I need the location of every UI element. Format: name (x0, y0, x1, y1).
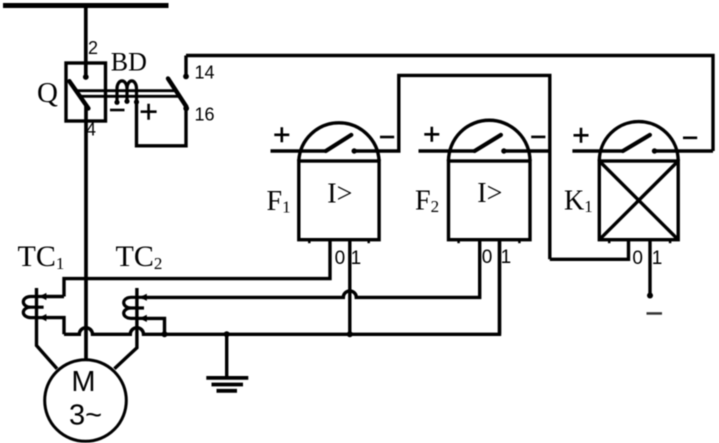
wire top run 14 to K1 right (186, 56, 713, 152)
polarity plus (F1) (274, 127, 289, 142)
relay F2 box (449, 161, 531, 240)
Q blade (69, 81, 88, 108)
relay K1 dome (599, 122, 678, 161)
F1 terminal 0 wire (64, 240, 330, 297)
junction TC2 on common wire (162, 331, 168, 337)
relay F1 dome (299, 123, 379, 161)
K1 box foot right (669, 240, 672, 244)
K1 fixed contact dot (652, 148, 657, 153)
ground bar 1 (206, 376, 248, 380)
F2 terminal 0 wire with hop over F1 t1 (142, 240, 480, 298)
aux switch blade (168, 79, 186, 107)
F2 contact blade (475, 135, 501, 151)
wire F2 minus to node (504, 149, 550, 152)
svg-text:0: 0 (632, 248, 643, 269)
polarity plus (K1) (574, 128, 589, 143)
relay F1 box (299, 161, 379, 240)
wire F1 minus to bridge (354, 75, 550, 259)
svg-text:14: 14 (195, 63, 215, 83)
aux contact 14 terminal dot (183, 74, 189, 80)
wire 14 to top run (184, 56, 187, 77)
svg-text:Q: Q (37, 77, 58, 109)
F1 plus terminal stub (271, 149, 326, 152)
polarity minus (K1) (683, 137, 697, 140)
K1 cross diagonal 1 (599, 161, 678, 240)
TC2 lower tap arrow (140, 315, 147, 322)
svg-text:3~: 3~ (69, 400, 102, 432)
TC1 lower tap arrow (39, 314, 46, 321)
svg-text:BD: BD (111, 48, 147, 77)
TC2 secondary windings (124, 297, 144, 318)
relay F2 dome (449, 120, 531, 161)
svg-text:F1: F1 (267, 186, 291, 217)
wire Q to motor (phase B) (84, 106, 88, 360)
svg-text:F2: F2 (415, 185, 439, 216)
K1 plus terminal stub (572, 149, 623, 152)
svg-text:1: 1 (351, 248, 362, 269)
F1 contact blade (326, 135, 352, 151)
wire TC2 lower tap to common (142, 318, 164, 334)
svg-text:4: 4 (86, 120, 96, 140)
polarity minus (F2) (531, 136, 545, 139)
svg-text:16: 16 (195, 105, 215, 125)
polarity minus (BD) (110, 109, 125, 112)
ground lead (225, 334, 228, 377)
coil lead dot middle (124, 99, 129, 104)
TC1 upper tap arrow (39, 293, 46, 300)
ground bar 2 (212, 383, 244, 387)
polarity minus (F1) (380, 136, 394, 139)
relay K1 box (599, 161, 678, 240)
mechanical linkage line lower (80, 95, 180, 98)
bus bar (top supply) (3, 3, 169, 8)
wire TC1 upper tap (42, 295, 64, 298)
svg-text:0: 0 (482, 247, 493, 268)
svg-text:2: 2 (88, 38, 98, 58)
coil lead dot right (134, 99, 139, 104)
F2 terminal 1 wire (498, 240, 501, 335)
F2 box foot right (518, 240, 521, 244)
svg-text:1: 1 (501, 247, 512, 268)
wire TC1 lower tap (42, 318, 64, 335)
switch Q box (66, 63, 106, 121)
svg-text:0: 0 (335, 248, 346, 269)
F1 terminal 1 wire (348, 240, 351, 335)
F1 box foot right (367, 240, 370, 244)
svg-text:1: 1 (652, 248, 663, 269)
svg-text:I>: I> (327, 178, 352, 209)
F2 plus terminal stub (419, 149, 475, 152)
coil lead dot left (114, 100, 119, 105)
svg-text:M: M (71, 366, 95, 398)
svg-text:K1: K1 (564, 186, 593, 217)
mechanical linkage line upper (76, 89, 176, 92)
svg-text:I>: I> (477, 178, 502, 209)
F1 fixed contact dot (352, 148, 357, 153)
F1 box foot left (308, 240, 311, 244)
K1 box foot left (608, 240, 611, 244)
F2 box foot left (457, 240, 460, 244)
coil BD windings (117, 81, 137, 102)
junction ground on common wire (224, 331, 230, 337)
TC2 primary conductor (114, 288, 136, 369)
junction F1 t1 on common wire (347, 331, 353, 337)
TC2 upper tap arrow (140, 294, 147, 301)
TC1 secondary windings (23, 297, 43, 318)
wire common return (with hops) (64, 240, 500, 335)
K1 terminal 1 end dot (647, 293, 653, 299)
wire BD loop (left/bottom/right of supply box) (137, 102, 187, 146)
motor M circle (45, 360, 127, 442)
polarity minus (below K1 t1) (647, 312, 663, 315)
K1 terminal 0 wire (550, 240, 629, 260)
polarity plus (F2) (424, 127, 439, 142)
wire K1 minus to right riser (655, 149, 714, 152)
TC1 primary conductor (37, 288, 58, 369)
aux contact 16 terminal dot (183, 105, 189, 111)
F2 fixed contact dot (501, 148, 506, 153)
wire bus to Q contact (84, 6, 88, 78)
svg-text:TC2: TC2 (116, 240, 163, 273)
K1 cross diagonal 2 (599, 161, 678, 240)
polarity plus (BD) (141, 104, 157, 120)
Q top contact dot (83, 74, 89, 80)
ground bar 3 (217, 389, 238, 393)
K1 terminal 1 wire (648, 240, 651, 296)
svg-text:TC1: TC1 (18, 240, 65, 273)
K1 contact blade (623, 135, 650, 151)
